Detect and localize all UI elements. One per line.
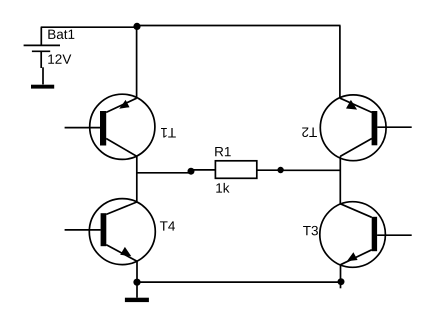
T3 emitter arrow bbox=[347, 252, 358, 261]
svg-text:1k: 1k bbox=[215, 181, 230, 196]
wire resistor right to junction bbox=[257, 169, 281, 171]
wire top junction drop to T1 bbox=[136, 26, 138, 98]
T2 collector line bbox=[340, 139, 372, 157]
T1 base bar bbox=[100, 111, 106, 146]
T1 collector line bbox=[106, 139, 137, 157]
wire middle right vertical (T2 collector to T3 collector) bbox=[339, 156, 341, 203]
wire battery negative lead upper segment bbox=[40, 52, 42, 68]
wire bottom rail bbox=[137, 281, 341, 283]
T4 emitter arrow bbox=[120, 247, 131, 256]
svg-text:T1: T1 bbox=[160, 125, 176, 140]
T1 emitter line bbox=[106, 98, 136, 112]
svg-text:R1: R1 bbox=[214, 144, 231, 159]
transistor T2 bbox=[301, 95, 411, 161]
wire T3 base lead bbox=[377, 234, 412, 236]
wire battery negative lead lower segment bbox=[42, 67, 44, 84]
wire top rail right segment bbox=[137, 25, 341, 27]
T3 base bar bbox=[372, 217, 377, 251]
T2 base bar bbox=[372, 111, 378, 145]
transistor T1 bbox=[65, 94, 176, 159]
T2 emitter arrow bbox=[346, 100, 357, 110]
T2 emitter line bbox=[340, 98, 372, 112]
battery plate long (positive) bbox=[24, 44, 60, 46]
svg-text:T4: T4 bbox=[160, 219, 176, 234]
wire T2 base lead bbox=[377, 126, 411, 128]
T1 emitter arrow bbox=[119, 100, 129, 109]
T2 body circle bbox=[320, 95, 386, 161]
T4 collector line bbox=[106, 202, 137, 214]
wire junction to resistor left bbox=[191, 169, 215, 171]
T4 body circle bbox=[89, 199, 155, 265]
transistor T3 bbox=[303, 202, 412, 289]
ground (bottom rail) bbox=[125, 298, 149, 302]
wire T4 emitter lead down bbox=[136, 261, 138, 282]
svg-text:12V: 12V bbox=[47, 52, 71, 67]
wire middle left vertical (T1 collector to T4 collector) bbox=[136, 156, 138, 202]
node bottom right junction bbox=[338, 278, 345, 285]
T3 emitter line bbox=[341, 250, 372, 265]
node top junction bbox=[133, 23, 140, 30]
wire junction to middle right vertical bbox=[281, 169, 341, 171]
svg-text:T2: T2 bbox=[301, 125, 317, 140]
T3 body circle bbox=[320, 202, 386, 268]
T1 body circle bbox=[90, 94, 155, 159]
wire T3 emitter lead down bbox=[340, 265, 342, 282]
wire top rail right drop to T2 bbox=[339, 26, 341, 99]
T4 base bar bbox=[101, 213, 107, 246]
wire T4 base lead bbox=[65, 229, 101, 231]
T4 emitter line bbox=[106, 245, 137, 261]
wire T3 emitter stub below rail bbox=[340, 285, 342, 288]
wire T1 base lead bbox=[65, 127, 100, 129]
wire bottom ground lead bbox=[136, 282, 138, 298]
transistor T4 bbox=[65, 199, 176, 283]
wire battery positive lead bbox=[40, 27, 42, 45]
resistor R1 bbox=[214, 144, 257, 195]
wire top rail left segment bbox=[41, 26, 137, 28]
wire middle left horizontal bbox=[137, 172, 191, 174]
node bottom left junction bbox=[133, 279, 140, 286]
battery plate short (negative) bbox=[32, 50, 50, 52]
T3 collector line bbox=[340, 204, 371, 218]
svg-text:T3: T3 bbox=[303, 223, 319, 238]
svg-text:Bat1: Bat1 bbox=[47, 27, 75, 42]
node middle right junction bbox=[277, 167, 283, 173]
ground (battery) bbox=[31, 85, 54, 89]
battery Bat1 bbox=[24, 27, 75, 67]
R1 body bbox=[215, 161, 256, 179]
node middle left junction bbox=[188, 168, 195, 175]
